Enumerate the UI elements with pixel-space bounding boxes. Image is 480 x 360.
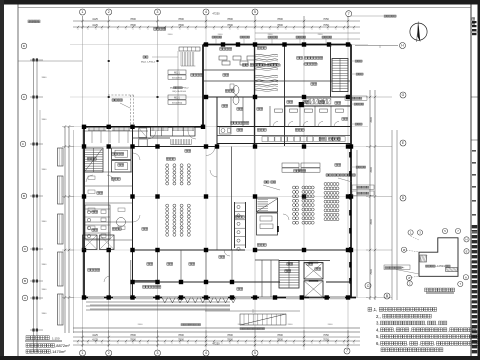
svg-text:(: ( bbox=[266, 63, 267, 67]
page right scan edge bbox=[478, 0, 480, 360]
svg-text:1: 1 bbox=[82, 10, 84, 14]
svg-text:,: , bbox=[410, 327, 411, 332]
svg-text:3900: 3900 bbox=[42, 264, 48, 266]
title block left border bbox=[470, 5, 472, 357]
right grid bubble D bbox=[400, 195, 406, 201]
fire diag bubble H bbox=[464, 237, 469, 242]
registration desks bbox=[219, 56, 255, 65]
svg-text:2400: 2400 bbox=[218, 34, 224, 36]
svg-text:7800: 7800 bbox=[227, 333, 233, 337]
svg-text:7800: 7800 bbox=[178, 338, 184, 342]
right grid bubble B bbox=[384, 293, 390, 299]
svg-text:6,: 6, bbox=[376, 341, 380, 346]
top grid bubble 7 bbox=[346, 11, 352, 17]
structural grid lines bbox=[70, 16, 368, 350]
top grid bubble 2 bbox=[106, 9, 112, 15]
page top scan edge bbox=[0, 0, 480, 5]
svg-text:,: , bbox=[407, 341, 408, 346]
courtyard annotation boxes bbox=[141, 47, 200, 126]
svg-text:2400: 2400 bbox=[288, 324, 294, 326]
svg-text:2,,: 2,, bbox=[376, 314, 381, 319]
extra construction lines bbox=[18, 46, 398, 334]
svg-text:,8872m²: ,8872m² bbox=[55, 343, 70, 348]
page left scan edge bbox=[0, 0, 4, 360]
waiting chairs right D bbox=[324, 183, 339, 221]
svg-text:7: 7 bbox=[346, 349, 348, 353]
svg-text:1: 1 bbox=[82, 351, 84, 355]
entrance canopy dashed bbox=[108, 95, 134, 126]
svg-text:3,: 3, bbox=[376, 321, 380, 326]
svg-text:MQ-1: MQ-1 bbox=[174, 72, 180, 74]
svg-text:7800: 7800 bbox=[370, 167, 373, 173]
fire diag bubble A bbox=[463, 275, 468, 280]
svg-text:7050: 7050 bbox=[323, 17, 329, 21]
drawing frame left line bbox=[17, 5, 19, 357]
svg-text:2400: 2400 bbox=[268, 34, 274, 36]
svg-text:): ) bbox=[317, 62, 318, 66]
fire diag bubble 7t bbox=[455, 228, 460, 233]
svg-text:3900: 3900 bbox=[42, 169, 48, 171]
top grid bubble 4 bbox=[203, 9, 209, 15]
svg-text:3: 3 bbox=[157, 351, 159, 355]
notes text block bbox=[368, 307, 480, 352]
svg-text:A: A bbox=[465, 275, 467, 279]
svg-text:4,: 4, bbox=[376, 327, 380, 332]
svg-text:2400: 2400 bbox=[188, 324, 194, 326]
svg-text:4125: 4125 bbox=[92, 17, 98, 21]
room labels bbox=[87, 28, 347, 291]
svg-text:7800: 7800 bbox=[277, 23, 283, 27]
label boxes waiting area bbox=[282, 163, 320, 172]
bottom grid bubble 5 bbox=[252, 350, 258, 356]
toilet fixtures bbox=[220, 84, 240, 134]
stair lower middle bbox=[279, 261, 299, 289]
structural columns bbox=[82, 42, 353, 299]
fire zone note box bbox=[384, 265, 419, 274]
right grid bubble C bbox=[365, 283, 371, 289]
fire diag bubble AL bbox=[406, 275, 411, 280]
svg-text:,: , bbox=[418, 341, 419, 346]
svg-text:,: , bbox=[325, 137, 326, 141]
svg-text:7800: 7800 bbox=[178, 17, 184, 21]
north arrow bbox=[410, 22, 427, 43]
annotation label boxes bbox=[345, 96, 374, 195]
right dimension string bbox=[366, 90, 397, 300]
svg-text:2400: 2400 bbox=[328, 324, 334, 326]
fire diag bubble 1 bbox=[408, 230, 413, 235]
interior walls bbox=[84, 45, 357, 298]
top grid bubble 5 bbox=[252, 9, 258, 15]
bottom grid bubble 7 bbox=[344, 348, 350, 354]
svg-text:A: A bbox=[24, 296, 26, 300]
left wing toilet cubicles bbox=[85, 205, 110, 239]
svg-text:E: E bbox=[466, 250, 468, 254]
window mullions top wall bbox=[89, 127, 193, 131]
waiting chairs right C2 bbox=[302, 186, 314, 224]
svg-text:4125: 4125 bbox=[92, 338, 98, 342]
stair left wing bbox=[85, 148, 104, 172]
fire diag bubble E bbox=[464, 249, 469, 254]
right grid bubble E bbox=[400, 140, 406, 146]
left strip bubble C bbox=[21, 94, 27, 100]
left wing closet dividers bbox=[92, 131, 128, 143]
title block strip content bbox=[471, 21, 478, 353]
svg-text:2: 2 bbox=[108, 351, 110, 355]
frame top line bbox=[18, 7, 471, 9]
entrance steps and ramp bbox=[73, 298, 360, 333]
top grid bubble 3 bbox=[155, 9, 161, 15]
svg-text:,: , bbox=[436, 321, 437, 326]
bottom dimension string bbox=[73, 330, 360, 347]
svg-text:MQ-1: MQ-1 bbox=[174, 97, 180, 99]
svg-text:1:150: 1:150 bbox=[52, 337, 60, 341]
bottom grid bubble 3 bbox=[155, 350, 161, 356]
svg-text:,: , bbox=[249, 63, 250, 67]
top grid bubble 1 bbox=[80, 9, 86, 15]
svg-text:4125: 4125 bbox=[92, 333, 98, 337]
svg-text:47250: 47250 bbox=[212, 12, 220, 16]
svg-text:5: 5 bbox=[254, 10, 256, 14]
svg-text:3900: 3900 bbox=[42, 77, 48, 79]
top wall leader labels bbox=[212, 36, 332, 44]
waiting chairs lobby A bbox=[166, 164, 191, 185]
svg-text:(: ( bbox=[303, 62, 304, 66]
entrance outdoor steps bbox=[181, 314, 286, 330]
left wing elevators bbox=[112, 148, 132, 172]
window row top wall bbox=[88, 127, 194, 130]
stair top right bbox=[331, 45, 349, 98]
left dimension string bbox=[62, 125, 74, 333]
svg-text:7800: 7800 bbox=[370, 219, 373, 225]
waiting chairs lobby B bbox=[166, 204, 191, 236]
elevator shafts bbox=[83, 235, 115, 250]
svg-text:7800: 7800 bbox=[130, 333, 136, 337]
svg-text:7: 7 bbox=[348, 12, 350, 16]
title block header bbox=[472, 18, 475, 26]
fire diag bubble 7b bbox=[458, 281, 463, 286]
svg-text:7500: 7500 bbox=[370, 269, 373, 275]
door swing arcs bbox=[104, 131, 289, 282]
svg-text:7800: 7800 bbox=[178, 333, 184, 337]
svg-text:3150(2850): 3150(2850) bbox=[172, 77, 183, 79]
left strip bubble B2 bbox=[21, 193, 27, 199]
right grid bubble H bbox=[400, 43, 406, 49]
svg-text:E: E bbox=[403, 248, 405, 252]
svg-text:4: 4 bbox=[205, 10, 207, 14]
page bottom scan edge bbox=[0, 356, 480, 360]
elevators lower middle bbox=[304, 262, 323, 297]
svg-text:FGC2: FGC2 bbox=[183, 88, 190, 90]
svg-text:,: , bbox=[425, 321, 426, 326]
fire diag bubble 2b bbox=[407, 281, 412, 286]
svg-text:5,: 5, bbox=[376, 334, 380, 339]
top dimension string bbox=[73, 12, 360, 40]
fire diagram caption bbox=[425, 288, 455, 293]
svg-text:2: 2 bbox=[108, 10, 110, 14]
left wing room fixtures bbox=[86, 175, 126, 229]
svg-text:--1470m²: --1470m² bbox=[436, 265, 446, 268]
svg-text:B: B bbox=[23, 194, 25, 198]
svg-text:H: H bbox=[465, 238, 467, 242]
svg-text:B: B bbox=[24, 279, 26, 283]
left wall-section strip bbox=[28, 20, 47, 352]
svg-text:3900: 3900 bbox=[42, 221, 48, 223]
left strip bubble 1/C bbox=[20, 141, 26, 147]
leader annotations bbox=[112, 99, 355, 190]
svg-text:2400: 2400 bbox=[318, 34, 324, 36]
svg-text:3900: 3900 bbox=[42, 313, 48, 315]
right side leader labels bbox=[351, 15, 396, 168]
waiting chairs right C1 bbox=[293, 186, 299, 224]
right grid bubble G bbox=[400, 92, 406, 98]
svg-text:4: 4 bbox=[205, 351, 207, 355]
canopy posts bbox=[108, 60, 159, 98]
fire diag bubble 5 bbox=[442, 228, 447, 233]
svg-text:,1,: ,1, bbox=[372, 307, 377, 312]
left strip bubble D bbox=[21, 43, 27, 49]
svg-text:MQ-1 1-FG2-2: MQ-1 1-FG2-2 bbox=[141, 62, 156, 64]
svg-text:MQ: MQ bbox=[170, 88, 174, 90]
svg-text:G: G bbox=[402, 93, 405, 97]
mid band room desks bbox=[273, 109, 344, 127]
svg-text:,1470m²: ,1470m² bbox=[51, 349, 66, 354]
svg-text:2400: 2400 bbox=[138, 324, 144, 326]
bottom grid bubble 1 bbox=[80, 350, 86, 356]
window row bottom wall bbox=[88, 297, 345, 300]
svg-text:7800: 7800 bbox=[130, 17, 136, 21]
svg-text:3: 3 bbox=[157, 10, 159, 14]
bottom grid bubble 2 bbox=[106, 350, 112, 356]
left strip bubble A bbox=[22, 295, 28, 301]
pharmacy shelving bbox=[255, 54, 278, 91]
misc small dims bbox=[138, 34, 334, 326]
left strip bubble B bbox=[22, 278, 28, 284]
svg-text:7800: 7800 bbox=[277, 17, 283, 21]
svg-text:47250: 47250 bbox=[212, 342, 220, 346]
left strip bubble C2 bbox=[22, 246, 28, 252]
bottom grid bubble 4 bbox=[203, 350, 209, 356]
vent shaft strip bbox=[285, 99, 351, 108]
svg-text:2400: 2400 bbox=[238, 324, 244, 326]
building outer wall outline bbox=[84, 45, 356, 298]
svg-text:7800: 7800 bbox=[370, 117, 373, 123]
left pilaster section column bbox=[58, 148, 64, 325]
svg-text:3900: 3900 bbox=[42, 289, 48, 291]
svg-text:7050: 7050 bbox=[323, 333, 329, 337]
svg-text:4125: 4125 bbox=[92, 23, 98, 27]
svg-text:#MQ-1A 1FG-B: #MQ-1A 1FG-B bbox=[172, 90, 186, 93]
svg-text:3150(2850): 3150(2850) bbox=[172, 102, 183, 104]
svg-text:7050: 7050 bbox=[323, 338, 329, 342]
fire diag bubble EL bbox=[401, 247, 406, 252]
svg-text:7800: 7800 bbox=[227, 17, 233, 21]
svg-text:,: , bbox=[448, 327, 449, 332]
svg-text:7800: 7800 bbox=[178, 23, 184, 27]
drawing title bottom left bbox=[25, 336, 70, 354]
svg-text:3900: 3900 bbox=[42, 119, 48, 121]
svg-text:,: , bbox=[394, 327, 395, 332]
svg-text:A: A bbox=[408, 276, 410, 280]
fire compartment diagram outline bbox=[404, 236, 458, 278]
svg-text:): ) bbox=[280, 63, 281, 67]
svg-text:,: , bbox=[434, 341, 435, 346]
svg-text:5: 5 bbox=[254, 351, 256, 355]
svg-text:7800: 7800 bbox=[277, 333, 283, 337]
fire diag bubble 3 bbox=[417, 230, 422, 235]
corridor cubicle row bbox=[262, 137, 345, 142]
svg-text:2400: 2400 bbox=[168, 34, 174, 36]
